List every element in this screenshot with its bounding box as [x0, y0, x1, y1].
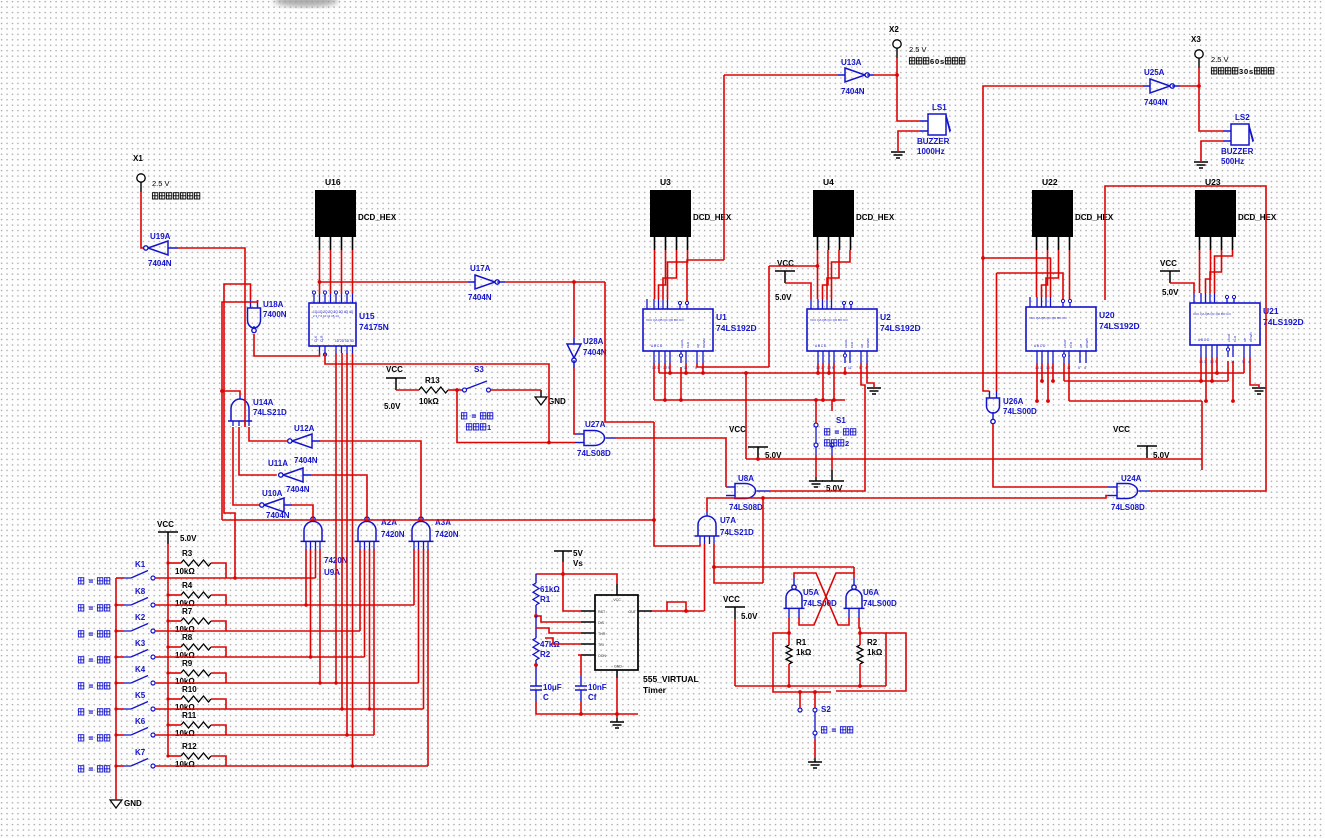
- svg-text:DCD_HEX: DCD_HEX: [1075, 213, 1114, 222]
- wire U10A out to U14A in1: [233, 427, 260, 505]
- wire bus y381: [1064, 380, 1228, 382]
- junction ground bus K3: [114, 655, 117, 658]
- wire S3 to GND: [491, 389, 542, 391]
- wire U21 load riser: [1227, 361, 1229, 381]
- inverter U13A 7404N: [845, 68, 865, 82]
- svg-text:U11A: U11A: [268, 459, 288, 468]
- wire U21 qc drop: [1211, 357, 1213, 381]
- junction S2 left: [798, 690, 802, 694]
- wire gate input riser x315.5: [315, 549, 317, 578]
- wire U20 qa drop: [1036, 363, 1038, 401]
- inverter U25A 7404N: [1150, 79, 1170, 93]
- wire VCC to U21 pin16: [1170, 283, 1194, 293]
- wire gate input riser x310.5: [310, 549, 312, 657]
- junction U14A out riser: [220, 389, 224, 393]
- junction y373 x1217: [1215, 371, 1219, 375]
- svg-text:74LS21D: 74LS21D: [720, 528, 754, 537]
- svg-text:A B C D: A B C D: [1034, 344, 1046, 348]
- label S2 key text 键 = 空格: [821, 727, 826, 733]
- wire U10A input stub: [284, 504, 292, 506]
- wire OUT to U7A riser: [652, 610, 704, 612]
- wire VCC bus to R10: [168, 698, 181, 700]
- IC U2 74LS192D counter: [807, 309, 877, 351]
- svg-text:R7: R7: [182, 607, 193, 616]
- inverter U11A 7404N: [283, 468, 303, 482]
- junction R1 top: [787, 631, 791, 635]
- junction y381 x1212: [1210, 379, 1214, 383]
- svg-text:10kΩ: 10kΩ: [175, 567, 195, 576]
- switch K2: [116, 630, 124, 632]
- junction ground bus K2: [114, 629, 117, 632]
- wire VCC bus to R8: [168, 646, 181, 648]
- svg-text:74175N: 74175N: [359, 322, 389, 332]
- resistor R8 10k: [181, 644, 211, 650]
- wire THR jog: [536, 628, 581, 633]
- svg-text:74LS00D: 74LS00D: [803, 599, 837, 608]
- wire LS2 low pin to gnd: [1201, 141, 1223, 144]
- wire net U14A output to U18A in2: [222, 300, 258, 395]
- svg-text:0: 0: [1244, 67, 1248, 76]
- wire y258 to U20: [983, 258, 1051, 297]
- svg-text:1kΩ: 1kΩ: [867, 648, 883, 657]
- display U3 DCD_HEX: [650, 190, 691, 237]
- wire y260 to U1 bubble: [687, 260, 724, 301]
- svg-text:VCC: VCC: [1113, 425, 1130, 434]
- junction y373 x829: [827, 371, 831, 375]
- wire key row K5: [155, 708, 424, 710]
- svg-text:10μF: 10μF: [543, 683, 562, 692]
- wire x769 riser: [768, 266, 770, 367]
- wire U5A input2 stub: [798, 608, 800, 618]
- wire key ground bus: [115, 578, 117, 800]
- svg-text:THR: THR: [598, 632, 606, 636]
- svg-text:VCC: VCC: [613, 598, 621, 602]
- svg-text:U13A: U13A: [841, 58, 862, 67]
- svg-text:UP: UP: [696, 344, 700, 348]
- svg-text:DCD_HEX: DCD_HEX: [693, 213, 732, 222]
- svg-text:s: s: [1249, 67, 1253, 76]
- wire CON to Cf: [580, 655, 582, 661]
- power VCC U24A area: [1137, 446, 1157, 458]
- wire 555 GND drop: [616, 678, 618, 714]
- wire key row K4: [155, 682, 419, 684]
- junction ground bus K6: [114, 733, 117, 736]
- junction VCC bus R8: [166, 645, 169, 648]
- svg-text:R2: R2: [540, 650, 551, 659]
- switch K8: [116, 604, 124, 606]
- wire U24A out loop: [1105, 186, 1266, 491]
- svg-text:3: 3: [1239, 67, 1243, 76]
- wire U22 p4: [1069, 250, 1071, 299]
- wire U14A out riser to key bus: [221, 391, 223, 520]
- wire U5A out cross: [794, 573, 849, 625]
- buzzer LS1: [928, 114, 946, 135]
- svg-text:TRI: TRI: [598, 643, 604, 647]
- wire R13 to S3: [448, 389, 462, 391]
- svg-text:2.5 V: 2.5 V: [152, 179, 170, 188]
- svg-text:U16: U16: [325, 177, 341, 187]
- svg-text:74LS00D: 74LS00D: [863, 599, 897, 608]
- junction rail x789: [787, 684, 791, 688]
- svg-text:R1: R1: [796, 638, 807, 647]
- wire bus y401: [1069, 400, 1202, 402]
- svg-text:555_VIRTUAL: 555_VIRTUAL: [643, 674, 699, 684]
- wire U17A input stub: [468, 281, 475, 283]
- svg-text:6: 6: [930, 57, 934, 66]
- wire U14A input stub x249: [248, 421, 250, 426]
- ground earth U21: [1252, 388, 1266, 394]
- svg-text:U26A: U26A: [1003, 397, 1024, 406]
- svg-text:74LS00D: 74LS00D: [1003, 407, 1037, 416]
- wire X2 node to LS1: [897, 75, 920, 121]
- svg-text:U4: U4: [823, 177, 834, 187]
- svg-text:U17A: U17A: [470, 264, 491, 273]
- wire DIS jog: [536, 616, 581, 622]
- wire U12A out to U14A in4: [249, 427, 288, 441]
- wire gate input riser x364.5: [364, 549, 366, 657]
- junction ground bus K7: [114, 764, 117, 767]
- and gate U8A 74LS08D: [735, 484, 756, 499]
- svg-text:K2: K2: [135, 613, 146, 622]
- svg-text:74LS21D: 74LS21D: [253, 408, 287, 417]
- svg-text:Cf: Cf: [588, 693, 597, 702]
- svg-text:DIS: DIS: [598, 621, 605, 625]
- wire x724 riser: [723, 75, 725, 260]
- ground earth LS1: [891, 152, 905, 158]
- wire U21 qd drop: [1216, 357, 1218, 373]
- svg-text:7404N: 7404N: [294, 456, 318, 465]
- label S1 key text 主持人2: [824, 440, 829, 446]
- wire R2 outer box: [836, 633, 906, 691]
- wire gate input riser x320: [319, 549, 321, 683]
- wire net K1 to U18A in1: [224, 284, 251, 578]
- junction OUT jog: [684, 609, 688, 613]
- wire U26A out stub: [992, 412, 994, 419]
- svg-text:CLR: CLR: [686, 341, 690, 348]
- switch K3: [116, 656, 124, 658]
- wire key row K1: [155, 577, 316, 579]
- wire U24A in2 stub: [1108, 495, 1117, 497]
- wire U16 pin3 to U15: [341, 250, 343, 294]
- nand gate A2A 7420N: [365, 517, 369, 521]
- svg-text:U7A: U7A: [720, 516, 736, 525]
- wire A3A input stub x423: [423, 541, 425, 549]
- svg-text:1D 2D 3D 4D: 1D 2D 3D 4D: [335, 339, 355, 343]
- wire U7A input stub x700: [699, 536, 701, 544]
- wire U22 p1: [1036, 250, 1038, 297]
- wire VCC bus to R11: [168, 724, 181, 726]
- capacitor C 10uF: [530, 686, 542, 690]
- power VCC keys column: [158, 532, 178, 544]
- svg-text:X3: X3: [1191, 35, 1201, 44]
- svg-text:U5A: U5A: [803, 588, 819, 597]
- wire U9A input stub x320: [319, 541, 321, 549]
- svg-text:K5: K5: [135, 691, 146, 700]
- label K8 key text 键 = 空格: [78, 605, 83, 611]
- wire U12A in line from A3A: [320, 441, 421, 521]
- wire U24A out stub: [1139, 490, 1151, 492]
- junction ground bus K4: [114, 681, 117, 684]
- wire U21 qb drop: [1205, 357, 1207, 401]
- wire U1 qa drop: [653, 363, 655, 400]
- wire U7A in4 riser: [714, 544, 763, 583]
- resistor R10 10k: [181, 696, 211, 702]
- wire U5A output stub: [793, 578, 795, 585]
- label X1 indicator text 有人抢答提示灯: [152, 193, 157, 199]
- wire Cf top red: [580, 661, 582, 676]
- junction R13-S3 node: [455, 388, 459, 392]
- svg-text:K7: K7: [135, 748, 146, 757]
- wire U5A input stubs: [788, 608, 790, 618]
- junction y400 x681: [679, 398, 683, 402]
- junction X2 node: [895, 73, 899, 77]
- svg-text:s: s: [940, 57, 944, 66]
- and gate U27A 74LS08D: [584, 431, 605, 446]
- svg-text:A B C D: A B C D: [1198, 338, 1210, 342]
- wire x1202 riser: [1201, 401, 1203, 470]
- IC U1 74LS192D counter: [643, 309, 713, 351]
- wire U11A out to U14A in2: [239, 427, 277, 475]
- svg-text:BUZZER: BUZZER: [917, 137, 950, 146]
- svg-text:A B C D: A B C D: [815, 344, 827, 348]
- wire U18A input2 stub: [257, 300, 259, 308]
- label X3 indicator text 抢答计时30s提示灯: [1211, 68, 1216, 74]
- svg-text:2 3 7 6 10 11 15 14: 2 3 7 6 10 11 15 14: [313, 314, 339, 318]
- junction row K3 riser x310.5: [309, 655, 312, 658]
- wire U20 qd drop: [1052, 363, 1054, 381]
- wire Cf lead bottom: [580, 690, 582, 702]
- svg-text:U18A: U18A: [263, 300, 284, 309]
- wire U6A out cross: [799, 573, 854, 625]
- wire U6A input stubs: [848, 608, 850, 618]
- nand gate U9A 7420N: [311, 517, 315, 521]
- junction y400 S1: [814, 398, 818, 402]
- wire S3 node down to U27A input line: [457, 390, 575, 443]
- wire U15 CLR to S3 net: [325, 354, 549, 443]
- switch K1: [116, 577, 124, 579]
- power VCC U2: [775, 271, 795, 283]
- wire U16 pin1 to U15: [319, 250, 321, 294]
- nand gate U18A 7400N: [248, 308, 261, 328]
- wire U26A out to U24A in1: [993, 424, 1108, 487]
- junction X3 node: [1197, 84, 1201, 88]
- svg-text:R3: R3: [182, 549, 193, 558]
- wire U20 co drop: [1068, 363, 1070, 401]
- svg-text:K3: K3: [135, 639, 146, 648]
- svg-text:5: 5: [1078, 366, 1080, 370]
- wire R10 to row corner: [211, 699, 226, 709]
- wire U11A input stub: [303, 474, 311, 476]
- junction y400 x834: [832, 398, 836, 402]
- junction y401 x1037: [1035, 399, 1039, 403]
- junction row K1 riser x235: [233, 576, 236, 579]
- wire A3A input stub x418: [418, 541, 420, 549]
- wire U14A input stub x233: [232, 421, 234, 426]
- svg-text:R11: R11: [182, 711, 197, 720]
- nand gate A3A 7420N: [419, 517, 423, 521]
- wire R2 bottom lead: [859, 664, 861, 686]
- resistor R1 1k latch: [786, 645, 792, 664]
- junction y400 x823: [821, 398, 825, 402]
- svg-text:7404N: 7404N: [286, 485, 310, 494]
- wire U7A out run to U24A in2: [707, 496, 1108, 512]
- wire U2 qb drop: [822, 363, 824, 400]
- svg-text:5.0V: 5.0V: [180, 534, 197, 543]
- power VCC latch area: [725, 607, 745, 619]
- wire bus y400: [654, 399, 845, 401]
- wire U28A drop: [573, 282, 575, 338]
- power source 5V Vs: [554, 551, 572, 562]
- junction y400 x665: [663, 398, 667, 402]
- junction VCC bus R7: [166, 619, 169, 622]
- junction bus373 x746: [744, 371, 748, 375]
- svg-text:1: 1: [487, 423, 491, 432]
- svg-text:7404N: 7404N: [841, 87, 865, 96]
- svg-text:U1: U1: [716, 312, 727, 322]
- wire R8 to row corner: [211, 647, 226, 657]
- svg-text:CLR: CLR: [1069, 341, 1073, 348]
- junction y373 x845: [843, 371, 847, 375]
- inverter U19A 7404N: [148, 241, 168, 255]
- wire U6A input2 stub: [858, 608, 860, 618]
- wire U15 D riser x342: [341, 353, 343, 709]
- wire U25A output stub: [1172, 85, 1180, 87]
- wire U26A in stubs: [989, 391, 991, 398]
- svg-text:R13: R13: [425, 376, 440, 385]
- svg-text:1kΩ: 1kΩ: [796, 648, 812, 657]
- junction bus520 at x654: [652, 518, 656, 522]
- svg-text:7400N: 7400N: [263, 310, 287, 319]
- junction row K8 riser x306: [304, 603, 307, 606]
- junction 5V rail: [561, 572, 565, 576]
- wire gate input riser x418.5: [418, 549, 420, 683]
- junction R2 top: [858, 631, 862, 635]
- junction latch tap on y498: [761, 496, 765, 500]
- wire U27A in1 stub: [575, 433, 584, 435]
- junction gnd rail: [615, 712, 619, 716]
- svg-text:10kΩ: 10kΩ: [419, 397, 439, 406]
- wire U4 p3: [827, 250, 839, 299]
- junction y373 x686: [684, 371, 688, 375]
- power VCC U8A area: [748, 447, 768, 459]
- wire U10A in line from U9A: [292, 505, 313, 521]
- label K1 key text 键 = 空格: [78, 578, 83, 584]
- wire R1 bottom lead: [788, 664, 790, 686]
- wire C leads: [535, 668, 537, 686]
- IC U21 74LS192D counter: [1190, 303, 1260, 345]
- wire U20 bo drop: [1063, 363, 1065, 381]
- svg-text:U22: U22: [1042, 177, 1058, 187]
- svg-text:LS2: LS2: [1235, 113, 1250, 122]
- wire VCC bus to R12: [168, 755, 181, 757]
- junction VCC stem y459: [756, 457, 760, 461]
- svg-text:CLK: CLK: [314, 335, 318, 342]
- svg-text:2: 2: [845, 439, 849, 448]
- svg-text:RST: RST: [598, 610, 606, 614]
- wire U14A input stub x239: [238, 421, 240, 426]
- wire U22 p2: [1042, 250, 1048, 297]
- wire R12 to row corner: [211, 756, 226, 766]
- junction VCC bus R3: [166, 561, 169, 564]
- junction y373 x818: [816, 371, 820, 375]
- wire VCC bus to R3: [168, 562, 181, 564]
- wire RST tie: [563, 574, 581, 611]
- nand gate U26A 74LS00D: [987, 398, 1000, 413]
- svg-text:7404N: 7404N: [583, 348, 607, 357]
- svg-text:74LS192D: 74LS192D: [716, 323, 757, 333]
- wire U25A input net: [983, 86, 1143, 391]
- wire U1 qc drop: [664, 363, 666, 400]
- svg-text:BUZZER: BUZZER: [1221, 147, 1254, 156]
- wire U13A output stub: [867, 74, 874, 76]
- ground GND triangle S3: [535, 397, 547, 405]
- label S1 key text 键 = 空格: [824, 429, 829, 435]
- svg-text:11: 11: [848, 366, 852, 370]
- svg-text:VCC: VCC: [157, 520, 174, 529]
- svg-text:Vs: Vs: [573, 559, 583, 568]
- junction row K5 riser x369.5: [368, 707, 371, 710]
- wire X3 to output node: [1198, 68, 1200, 86]
- IC 555 timer 555_VIRTUAL: [595, 595, 638, 670]
- wire U1 up pin to x769: [697, 363, 769, 367]
- svg-text:VCC: VCC: [723, 595, 740, 604]
- junction VCC bus R12: [166, 754, 169, 757]
- wire Cf lead top: [580, 676, 582, 686]
- svg-text:61kΩ: 61kΩ: [540, 585, 560, 594]
- wire VCC latch drop: [734, 619, 736, 686]
- svg-text:0: 0: [935, 57, 939, 66]
- wire U15 D riser x336: [335, 353, 337, 683]
- svg-text:5.0V: 5.0V: [775, 293, 792, 302]
- wire U13A input net: [724, 74, 838, 76]
- switch S2: [798, 708, 802, 712]
- and gate U14A 74LS21D: [231, 399, 249, 421]
- wire R2 top lead: [859, 633, 861, 645]
- wire U18A output stub: [253, 326, 255, 328]
- svg-text:R8: R8: [182, 633, 193, 642]
- wire U16 pin2 to U15: [330, 250, 332, 294]
- switch K6: [116, 734, 124, 736]
- wire R3 to row corner: [211, 563, 226, 578]
- wire U12A input stub: [312, 440, 320, 442]
- wire U5A in1 to R1: [788, 618, 790, 633]
- wire U21 up drop: [1243, 357, 1245, 373]
- junction y401 x1233: [1231, 399, 1235, 403]
- wire U4 p1: [817, 250, 819, 299]
- wire U9A input stub x306: [305, 541, 307, 549]
- wire U19A output stub: [168, 247, 178, 249]
- wire U7A input stub x704: [704, 536, 706, 544]
- resistor R2 1k latch: [857, 645, 863, 664]
- junction y381 x1201: [1199, 379, 1203, 383]
- wire U7A input stub x709: [709, 536, 711, 544]
- wire run y459: [746, 458, 1202, 460]
- label K3 key text 键 = 空格: [78, 657, 83, 663]
- wire U28A out to U27A in1: [574, 368, 575, 434]
- wire U9A input stub x315: [315, 541, 317, 549]
- svg-text:2.5 V: 2.5 V: [909, 45, 927, 54]
- svg-text:X2: X2: [889, 25, 899, 34]
- wire R2 box: [860, 633, 886, 686]
- svg-text:R4: R4: [182, 581, 193, 590]
- wire bottom rail 555: [536, 702, 638, 714]
- svg-text:CLR: CLR: [850, 341, 854, 348]
- svg-text:DOWN: DOWN: [1249, 333, 1253, 343]
- svg-text:10kΩ: 10kΩ: [175, 729, 195, 738]
- junction VCC bus R11: [166, 723, 169, 726]
- svg-text:74LS08D: 74LS08D: [577, 449, 611, 458]
- svg-text:U24A: U24A: [1121, 474, 1142, 483]
